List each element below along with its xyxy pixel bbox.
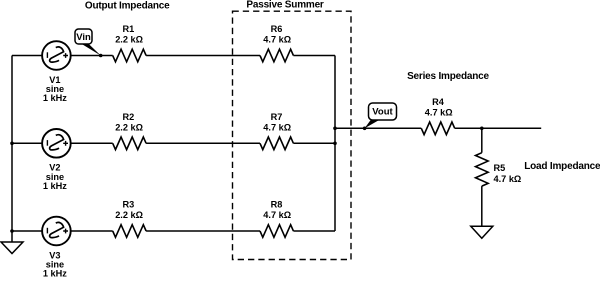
resistor R5: [476, 153, 489, 186]
label R4 4.7 kΩ: [425, 97, 453, 118]
junction: summing bus at output tap: [333, 127, 337, 131]
resistor R7: [260, 137, 293, 150]
ground (load return): [471, 226, 493, 238]
junction: Vin tap on V1-R1 wire: [99, 54, 103, 58]
svg-text:4.7 kΩ: 4.7 kΩ: [263, 35, 291, 45]
label R2 2.2 kΩ: [115, 112, 143, 133]
svg-text:2.2 kΩ: 2.2 kΩ: [115, 35, 143, 45]
label R8 4.7 kΩ: [263, 200, 291, 221]
svg-text:R4: R4: [432, 97, 445, 107]
wire: R6 to summing bus: [293, 55, 335, 57]
svg-text:Passive Summer: Passive Summer: [246, 0, 324, 11]
label V2 sine 1 kHz: [43, 163, 67, 191]
svg-text:R6: R6: [271, 24, 283, 34]
svg-text:Output Impedance: Output Impedance: [85, 1, 170, 12]
junction: bus at V2: [10, 142, 14, 146]
wire: V3 negative to bus: [12, 230, 42, 232]
svg-text:4.7 kΩ: 4.7 kΩ: [263, 122, 291, 132]
junction: load node (R4/R5): [480, 127, 484, 131]
svg-text:1 kHz: 1 kHz: [43, 181, 67, 191]
svg-text:2.2 kΩ: 2.2 kΩ: [115, 210, 143, 220]
junction: bus at V3: [10, 229, 14, 233]
wire: summing bus (vertical): [334, 56, 336, 232]
svg-text:4.7 kΩ: 4.7 kΩ: [425, 107, 453, 117]
voltage source V3: [42, 217, 71, 246]
resistor R3: [113, 225, 146, 238]
wire: R1 to R6: [146, 55, 260, 57]
label R7 4.7 kΩ: [263, 112, 291, 133]
passive summer boundary box (dashed): [233, 11, 352, 259]
resistor R8: [260, 225, 293, 238]
svg-text:Vin: Vin: [76, 32, 91, 43]
svg-text:Vout: Vout: [372, 107, 393, 118]
svg-text:R2: R2: [123, 112, 135, 122]
svg-text:R5: R5: [494, 163, 506, 173]
svg-text:2.2 kΩ: 2.2 kΩ: [115, 122, 143, 132]
wire: V1 positive to R1 (node Vin): [70, 55, 112, 57]
wire: V3 positive to R3: [70, 230, 112, 232]
voltage source V1: [42, 41, 71, 70]
resistor R4: [421, 122, 454, 135]
wire: load node down to R5: [481, 128, 483, 152]
label R5 4.7 kΩ: [494, 163, 522, 184]
label R6 4.7 kΩ: [263, 24, 291, 45]
svg-text:4.7 kΩ: 4.7 kΩ: [494, 174, 522, 184]
wire: R4 to load node and open terminal: [455, 127, 542, 129]
voltage source V2: [42, 129, 71, 158]
label R3 2.2 kΩ: [115, 200, 143, 221]
svg-text:1 kHz: 1 kHz: [43, 93, 67, 103]
net flag Vin: [75, 29, 101, 56]
wire: V1 negative to bus: [12, 55, 42, 57]
svg-text:Load Impedance: Load Impedance: [524, 161, 600, 172]
junction: Vout tap: [363, 127, 367, 131]
wire: summing node to R4 (node Vout): [335, 127, 421, 129]
ground (source return): [1, 242, 23, 254]
wire: R2 to R7: [146, 142, 260, 144]
wire: R7 to summing bus: [293, 142, 335, 144]
label V3 sine 1 kHz: [43, 250, 67, 278]
net flag Vout: [365, 103, 397, 128]
wire: ground bus (left vertical): [11, 56, 13, 243]
svg-text:R1: R1: [123, 24, 135, 34]
svg-text:R3: R3: [123, 200, 135, 210]
resistor R6: [260, 49, 293, 62]
wire: R5 to ground: [481, 186, 483, 226]
resistor R1: [113, 49, 146, 62]
svg-text:1 kHz: 1 kHz: [43, 269, 67, 279]
wire: R3 to R8: [146, 230, 260, 232]
resistor R2: [113, 137, 146, 150]
label R1 2.2 kΩ: [115, 24, 143, 45]
junction: summing bus at R7: [333, 142, 337, 146]
wire: R8 to summing bus: [293, 230, 335, 232]
wire: V2 negative to bus: [12, 142, 42, 144]
svg-text:R7: R7: [271, 112, 283, 122]
svg-text:4.7 kΩ: 4.7 kΩ: [263, 210, 291, 220]
wire: V2 positive to R2: [70, 142, 112, 144]
label V1 sine 1 kHz: [43, 75, 67, 103]
svg-text:R8: R8: [271, 200, 283, 210]
svg-text:Series Impedance: Series Impedance: [407, 71, 489, 82]
